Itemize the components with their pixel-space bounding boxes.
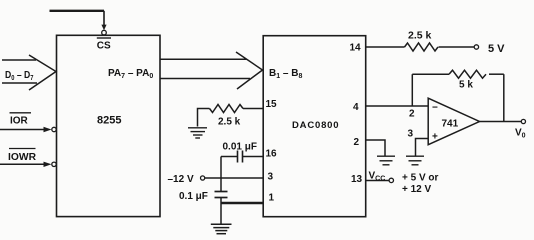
feedback top wire right — [489, 73, 504, 75]
label pin 15 — [266, 99, 278, 110]
label plus sign — [432, 132, 438, 143]
IC U1 8255 box — [57, 35, 161, 216]
wire -12V to pin 3 — [205, 177, 263, 179]
bubble IOWR — [52, 162, 56, 166]
svg-text:16: 16 — [266, 149, 278, 160]
terminal 5V circle — [474, 45, 478, 49]
svg-text:5 V: 5 V — [488, 43, 505, 55]
arrowhead IOWR — [44, 162, 52, 167]
bus D0-D7 top line — [2, 59, 36, 61]
bus PA arrowhead chevron — [236, 52, 263, 89]
capacitor C2 0.1uF — [215, 192, 228, 204]
feedback top wire left — [412, 73, 449, 75]
label -12 V — [168, 174, 194, 185]
label 741 — [442, 119, 459, 130]
svg-text:0.1 μF: 0.1 μF — [179, 191, 208, 202]
capacitor C1 0.01uF (pin 16) — [221, 151, 263, 163]
label 8255 — [97, 115, 121, 127]
label Vcc — [369, 171, 386, 183]
svg-text:+: + — [432, 132, 438, 143]
label D0-D7 — [5, 69, 34, 82]
label +5V or — [402, 173, 439, 184]
svg-text:5 k: 5 k — [459, 80, 473, 91]
svg-text:CS: CS — [97, 41, 111, 52]
resistor R1 2.5k (pin 14) — [405, 43, 439, 51]
wire IOWR — [0, 163, 45, 165]
bus PA7-PA0 to B1-B8 top line — [160, 58, 247, 60]
label 2.5k (R1) — [408, 30, 432, 42]
wire IOR — [0, 129, 45, 131]
wire CS select (top horizontal) — [50, 10, 105, 12]
IC U2 DAC0800 box — [263, 36, 366, 217]
label IOR with overline — [10, 113, 32, 127]
label pin 1 — [269, 193, 275, 204]
label op-amp pin 3 — [408, 129, 414, 140]
wire down to ground G2 — [220, 203, 222, 224]
svg-text:+ 12 V: + 12 V — [402, 184, 432, 195]
label 5k (R3) — [459, 80, 473, 91]
svg-text:D0 – D7: D0 – D7 — [5, 69, 34, 82]
terminal -12V circle — [201, 176, 205, 180]
op-amp U3 741 triangle — [428, 98, 479, 145]
wire CS vertical drop — [103, 11, 105, 27]
wire vertical cap rail — [220, 157, 222, 192]
label CS with overline — [97, 38, 111, 52]
label V0 — [515, 128, 526, 140]
feedback loop wire left vertical — [411, 74, 413, 106]
bubble CS (active-low) — [102, 30, 107, 35]
svg-text:2.5 k: 2.5 k — [218, 117, 241, 128]
wire pin 4 to op-amp inverting input — [366, 105, 428, 107]
label minus sign — [432, 103, 438, 114]
label IOWR with overline — [8, 149, 37, 164]
label pin 14 — [350, 43, 362, 54]
label +12V — [402, 184, 432, 195]
resistor R3 5k feedback — [449, 70, 486, 78]
svg-text:IOWR: IOWR — [8, 152, 37, 163]
feedback right vertical — [503, 74, 505, 121]
svg-text:−: − — [432, 103, 438, 114]
svg-text:+ 5 V or: + 5 V or — [402, 173, 439, 184]
svg-text:14: 14 — [350, 43, 362, 54]
label 0.1 uF — [179, 191, 208, 202]
label 2.5k (R2) — [218, 117, 241, 128]
label pin 2 (DAC) — [354, 137, 360, 148]
bus D0-D7 arrowhead chevron — [29, 55, 56, 90]
label B1-B8 — [269, 68, 302, 80]
wire pin 13 Vcc — [366, 180, 389, 182]
ground G2 (bottom) — [211, 224, 232, 234]
wire pin 1 (thick) — [221, 202, 263, 205]
label pin 13 — [351, 174, 363, 185]
wire R1 to 5V terminal — [439, 46, 475, 48]
label DAC0800 — [292, 120, 339, 131]
wire DAC pin 2 to ground — [366, 140, 385, 156]
svg-text:2: 2 — [409, 109, 415, 120]
svg-text:0.01 μF: 0.01 μF — [223, 142, 257, 153]
ground G4 (op-amp +input) — [406, 156, 424, 165]
ground G3 (DAC pin 2) — [377, 156, 395, 165]
svg-text:8255: 8255 — [97, 115, 121, 127]
wire op-amp output — [480, 121, 522, 123]
svg-text:PA7 – PA0: PA7 – PA0 — [108, 68, 153, 80]
arrowhead into CS — [101, 25, 106, 31]
svg-text:IOR: IOR — [10, 116, 29, 127]
svg-text:4: 4 — [353, 102, 359, 113]
svg-text:3: 3 — [408, 129, 414, 140]
label PA7-PA0 — [108, 68, 153, 80]
svg-text:B1 – B8: B1 – B8 — [269, 68, 302, 80]
terminal V0 circle — [521, 119, 525, 123]
svg-text:–12 V: –12 V — [168, 174, 194, 185]
label 5 V — [488, 43, 505, 55]
svg-text:2.5 k: 2.5 k — [408, 30, 432, 42]
svg-text:13: 13 — [351, 174, 363, 185]
svg-text:1: 1 — [269, 193, 275, 204]
wire pin 14 to R1 — [366, 46, 405, 48]
arrowhead IOR — [44, 127, 52, 132]
label pin 3 — [268, 172, 274, 183]
svg-text:3: 3 — [268, 172, 274, 183]
svg-text:741: 741 — [442, 119, 459, 130]
resistor R2 2.5k (pin 15) — [198, 105, 264, 127]
bus D0-D7 bottom line — [2, 82, 37, 84]
svg-text:2: 2 — [354, 137, 360, 148]
label pin 16 — [266, 149, 278, 160]
label 0.01 uF — [223, 142, 257, 153]
wire op-amp pin3 stub — [416, 139, 429, 156]
bus PA7-PA0 to B1-B8 bottom line — [160, 78, 250, 80]
label pin 4 — [353, 102, 359, 113]
ground G1 (below R2) — [188, 128, 207, 138]
svg-text:15: 15 — [266, 99, 278, 110]
terminal Vcc circle — [389, 178, 393, 182]
bubble IOR — [52, 127, 56, 131]
svg-text:DAC0800: DAC0800 — [292, 120, 339, 131]
label op-amp pin 2 — [409, 109, 415, 120]
